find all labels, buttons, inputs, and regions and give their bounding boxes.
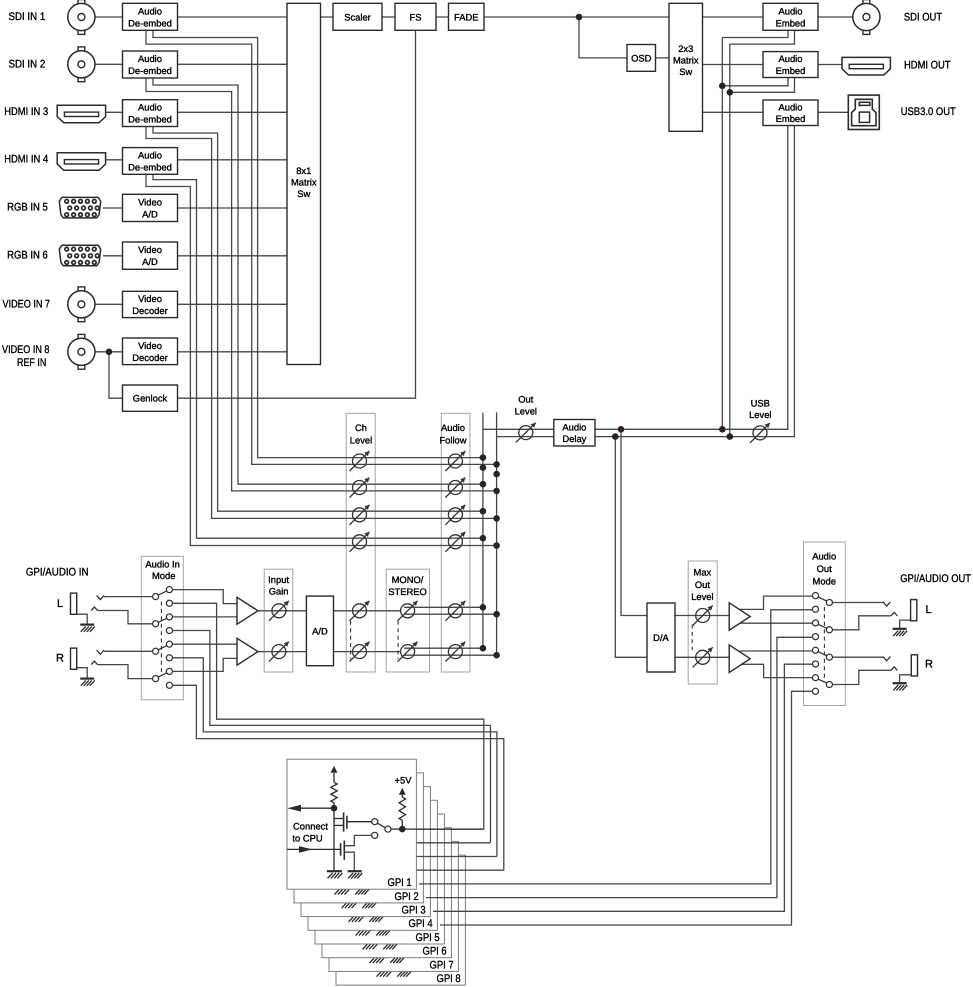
switch levers Audio Out Mode: [818, 597, 826, 601]
wire de-embed 4 audio ch A to mixer row 4: [153, 174, 483, 538]
block Audio De-embed 4: [123, 148, 178, 175]
GPI 1 output to CPU arrow: [301, 807, 334, 809]
connector L audio out jack: [911, 600, 917, 621]
svg-text:Connect: Connect: [293, 821, 328, 832]
svg-text:R: R: [925, 659, 933, 671]
amplifier output R (amp4): [729, 645, 750, 673]
wire out pole 1 to L jack tip: [832, 602, 883, 604]
connector SDI OUT BNC: [863, 0, 870, 4]
wire Audio De-embed 1 to 8x1 Matrix: [178, 16, 288, 18]
wire MONO/STEREO out R pair upper: [404, 647, 483, 649]
wire throw 4 to GPI 2: [173, 631, 491, 843]
switch poles Audio In Mode: [153, 594, 159, 600]
GPI 1 switch throw upper: [372, 819, 378, 825]
block D/A: [647, 603, 675, 672]
svg-text:Audio: Audio: [779, 53, 803, 64]
wire throw 5 to amp2 input A: [173, 643, 238, 645]
GPI 3 ground hatches: [341, 900, 356, 902]
amplifier input L (amp1): [237, 597, 258, 624]
GPI 2 box: [294, 773, 423, 903]
svg-text:D/A: D/A: [653, 632, 669, 643]
svg-text:A/D: A/D: [142, 208, 158, 219]
wire VIDEO IN 8 to Video Decoder 8: [95, 351, 123, 353]
ground R in jack: [80, 677, 94, 679]
wire throw 2 to GPI 1: [173, 603, 484, 829]
junction embed bus A at delay out: [719, 426, 726, 433]
junction L bus row 6: [480, 645, 487, 652]
junction R bus row 4: [493, 542, 500, 549]
svg-text:L: L: [925, 604, 931, 616]
switch gang dash Audio Out Mode: [823, 607, 825, 681]
wire de-embed 3 audio ch A to mixer row 3: [153, 127, 483, 512]
pot level analog L (post A/D): [353, 604, 367, 618]
wire Audio De-embed 2 to 8x1 Matrix: [178, 63, 288, 65]
svg-text:Gain: Gain: [269, 586, 289, 597]
svg-text:Genlock: Genlock: [133, 393, 168, 404]
svg-text:SDI IN 1: SDI IN 1: [9, 11, 46, 23]
wire L jack tip switch to pole 1: [97, 595, 104, 599]
connector HDMI OUT: [842, 57, 890, 75]
switch levers Audio In Mode: [158, 591, 167, 595]
GPI 1 node junction: [331, 805, 338, 812]
gang dash post-A/D pots: [350, 621, 352, 659]
junction L bus row 4: [480, 535, 487, 542]
wire 2x3 Matrix to Audio Embed 3: [703, 111, 764, 113]
wire de-embed 3 audio ch B to mixer row 3: [146, 127, 497, 519]
wire HDMI IN 4 to Audio De-embed 4: [106, 159, 123, 161]
wire 2x3 Matrix to Audio Embed 1: [703, 16, 764, 18]
wire junction drop to OSD: [579, 17, 627, 58]
block Audio De-embed 2: [123, 51, 178, 78]
wire Audio Embed 1 to SDI OUT: [818, 16, 853, 18]
junction VIDEO IN 8 REF IN tap: [106, 349, 113, 356]
wire out pole 2 to L jack sleeve: [832, 616, 891, 630]
connector R audio in jack: [71, 648, 77, 669]
svg-text:HDMI OUT: HDMI OUT: [904, 59, 951, 71]
GPI 1 pull-up supply arrow: [331, 766, 338, 773]
transistor Q2 (drive FET): [287, 848, 341, 850]
wire GPI 3 output: [405, 856, 497, 858]
wire L jack ring switch to pole 2: [91, 607, 97, 611]
wire D/A out L to amp3: [675, 615, 729, 617]
wire embed bus B vertical: [729, 44, 731, 437]
wire GPI 1 pole node to stack edge: [402, 828, 484, 830]
svg-text:De-embed: De-embed: [128, 161, 172, 172]
block A/D: [306, 596, 333, 666]
svg-text:USB: USB: [751, 397, 770, 408]
junction embed bus B at Audio Embed 2: [727, 89, 734, 96]
svg-text:A/D: A/D: [312, 625, 328, 636]
svg-text:2x3: 2x3: [678, 43, 693, 54]
wire out R to Audio Embed 3: [730, 126, 795, 437]
GPI 1 node to ground rail: [333, 808, 335, 870]
wire throw 3 to amp1 input B: [173, 616, 238, 618]
svg-text:Out: Out: [817, 563, 833, 574]
svg-text:GPI 3: GPI 3: [402, 905, 426, 917]
svg-text:Follow: Follow: [439, 434, 466, 445]
amplifier output L (amp3): [729, 603, 750, 630]
svg-text:Video: Video: [138, 340, 162, 351]
wire D/A out R to amp4: [675, 656, 729, 658]
switch contacts Audio Out Mode: [812, 593, 818, 599]
svg-text:Audio In: Audio In: [145, 559, 179, 570]
svg-text:HDMI IN 3: HDMI IN 3: [4, 106, 48, 118]
svg-text:Level: Level: [691, 591, 713, 602]
connector HDMI IN 3: [57, 105, 105, 123]
wire amp3 out B to contact 3: [740, 622, 812, 624]
GPI 1 switch pole: [385, 826, 391, 832]
pot Max Out Level L: [696, 609, 710, 623]
GPI 4 ground hatches: [348, 914, 363, 916]
junction L bus row 3: [480, 508, 487, 515]
container Audio Out Mode: [804, 542, 846, 706]
block Audio Embed 3: [763, 100, 818, 126]
connector USB3.0 OUT: [848, 95, 879, 129]
wire R jack tip switch to pole 3: [97, 650, 104, 654]
wire D/A feed upper: [621, 429, 647, 615]
gang dash MONO/STEREO pots: [397, 621, 399, 659]
wire OSD to 2x3 Matrix Sw: [656, 57, 670, 59]
wire Audio Delay out R: [595, 436, 730, 438]
connector HDMI IN 4: [57, 153, 105, 171]
junction R bus row 1b: [493, 471, 500, 478]
wire Audio De-embed 3 to 8x1 Matrix: [178, 111, 288, 113]
junction embed bus B at delay out: [727, 433, 734, 440]
pot level analog R (post A/D): [353, 645, 367, 659]
block Audio De-embed 1: [123, 3, 178, 30]
pot Ch Level row 3: [353, 508, 367, 522]
ground GPI 1 right: [348, 870, 362, 872]
GPI 1 switch lever: [378, 823, 386, 827]
+5V supply arrow: [399, 788, 406, 795]
container Audio Follow: [441, 413, 470, 672]
wire amp2 out to A/D: [258, 651, 306, 653]
svg-text:Audio: Audio: [779, 101, 803, 112]
wire GPI 8 to Audio Out Mode contact 8: [440, 691, 812, 925]
svg-text:GPI 4: GPI 4: [409, 918, 433, 930]
svg-text:RGB IN 6: RGB IN 6: [7, 250, 48, 262]
connector R audio out jack: [911, 655, 917, 676]
connector SDI IN 1 BNC: [78, 0, 85, 4]
wire Video A/D 5 to 8x1 Matrix: [178, 207, 288, 209]
svg-text:L: L: [57, 598, 63, 610]
wire de-embed 4 audio ch B to mixer row 4: [146, 174, 497, 545]
GPI 4 box: [308, 800, 437, 930]
svg-text:GPI/AUDIO OUT: GPI/AUDIO OUT: [900, 573, 971, 585]
connector RGB IN 6 VGA: [59, 245, 100, 266]
wire de-embed 1 audio ch A to mixer row 1: [153, 30, 483, 457]
svg-text:Audio: Audio: [138, 53, 162, 64]
svg-text:Video: Video: [138, 196, 162, 207]
ground GPI 1 left: [327, 870, 342, 872]
svg-text:Scaler: Scaler: [344, 11, 371, 22]
svg-text:SDI IN 2: SDI IN 2: [9, 58, 46, 70]
wire GPI 2 output: [398, 842, 491, 844]
pot Max Out Level R: [696, 650, 710, 664]
svg-text:Mode: Mode: [152, 570, 175, 581]
svg-text:Video: Video: [138, 293, 162, 304]
container Max Out Level: [688, 561, 717, 684]
wire Audio Embed 2 to HDMI OUT: [818, 64, 842, 66]
wire L out jack to ground: [900, 620, 911, 628]
wire throw 7 to amp2 input B: [173, 658, 238, 671]
wire MONO/STEREO out L pair lower: [404, 613, 497, 615]
junction L bus row 1b: [480, 464, 487, 471]
svg-text:REF IN: REF IN: [17, 357, 46, 369]
wire A/D out R to MONO/STEREO: [334, 651, 401, 653]
ground R out jack: [893, 682, 907, 684]
wire SDI IN 1 to Audio De-embed 1: [95, 16, 123, 18]
wire GPI 7 to Audio Out Mode contact 6: [433, 664, 812, 911]
block Audio De-embed 3: [123, 100, 178, 127]
svg-text:GPI 7: GPI 7: [430, 959, 454, 971]
pot Audio Follow row 4: [448, 535, 462, 549]
svg-text:HDMI IN 4: HDMI IN 4: [4, 154, 48, 166]
svg-text:Embed: Embed: [776, 17, 806, 28]
switch poles Audio Out Mode: [826, 599, 832, 605]
wire GPI 1 output: [391, 828, 484, 830]
wire R in jack sleeve to ground: [77, 668, 88, 679]
block FS: [395, 3, 436, 30]
svg-text:GPI 2: GPI 2: [395, 891, 419, 903]
pot USB Level: [753, 426, 767, 440]
svg-text:MONO/: MONO/: [392, 574, 424, 585]
connector VIDEO IN 8 / REF IN BNC: [78, 334, 85, 338]
svg-text:VIDEO IN 8: VIDEO IN 8: [2, 344, 50, 356]
wire out pole 3 to R jack tip: [832, 656, 883, 658]
block Video Decoder 7: [123, 291, 178, 317]
svg-text:Audio: Audio: [562, 421, 586, 432]
svg-text:R: R: [56, 653, 64, 665]
block Audio Embed 1: [763, 3, 818, 30]
junction L bus row 1: [480, 454, 487, 461]
+5V node junction: [401, 821, 403, 830]
wire Audio Delay out L: [595, 428, 722, 430]
GPI 6 box: [322, 828, 451, 958]
svg-text:Decoder: Decoder: [132, 305, 167, 316]
wire Audio Embed 1 feed B: [730, 30, 795, 44]
wire Scaler to FS: [382, 16, 395, 18]
ground L in jack: [80, 623, 94, 625]
bus audio L (left mix bus): [482, 413, 484, 648]
svg-text:+5V: +5V: [395, 774, 413, 785]
GPI 6 ground hatches: [362, 941, 377, 943]
connector SDI IN 2 BNC: [78, 47, 85, 51]
svg-text:OSD: OSD: [631, 52, 652, 63]
svg-text:SDI OUT: SDI OUT: [904, 11, 942, 23]
junction R bus row 3: [493, 515, 500, 522]
wire amp4 out A to contact 5: [740, 650, 813, 652]
junction FADE-OSD split: [576, 14, 583, 21]
pot MONO/STEREO R: [401, 645, 415, 659]
svg-text:De-embed: De-embed: [128, 114, 172, 125]
container Ch Level: [346, 413, 375, 672]
junction delay out upper to D/A: [618, 426, 625, 433]
block 8x1 Matrix Sw: [287, 3, 321, 364]
wire Audio Embed 2 feed B: [730, 78, 795, 93]
block Audio Embed 2: [763, 52, 818, 78]
block 2x3 Matrix Sw: [669, 3, 703, 131]
wire GPI 4 output: [412, 869, 504, 871]
wire de-embed 2 audio ch B to mixer row 2: [146, 78, 497, 491]
block Genlock: [123, 385, 178, 411]
svg-text:Embed: Embed: [776, 65, 806, 76]
wire out pole 4 to R jack sleeve: [832, 670, 891, 684]
svg-text:Matrix: Matrix: [291, 177, 317, 188]
junction R bus row 1: [493, 461, 500, 468]
pot Audio Follow row 3: [448, 508, 462, 522]
wire 8x1 Matrix to Scaler: [321, 16, 334, 18]
svg-text:Audio: Audio: [779, 5, 803, 16]
svg-text:Audio: Audio: [812, 551, 836, 562]
GPI 7 ground hatches: [369, 955, 384, 957]
wire MONO/STEREO out L pair upper: [404, 606, 483, 608]
wire 2x3 Matrix to Audio Embed 2: [703, 64, 764, 66]
svg-text:GPI/AUDIO IN: GPI/AUDIO IN: [26, 567, 89, 579]
block OSD: [627, 45, 656, 72]
pot Audio Follow row 6: [448, 645, 462, 659]
svg-text:GPI 6: GPI 6: [423, 946, 447, 958]
GPI 1 pull-up resistor: [331, 782, 337, 803]
svg-text:8x1: 8x1: [296, 165, 311, 176]
+5V pull-up resistor: [399, 797, 405, 821]
svg-text:Level: Level: [515, 406, 537, 417]
junction L bus row 2: [480, 481, 487, 488]
svg-text:Decoder: Decoder: [132, 352, 167, 363]
wire de-embed 1 audio ch B to mixer row 1: [146, 30, 497, 464]
wire GPI 1 pole to +5V node: [391, 828, 402, 830]
wire FS to FADE: [436, 16, 449, 18]
svg-text:GPI 5: GPI 5: [416, 932, 440, 944]
svg-text:STEREO: STEREO: [388, 586, 427, 597]
wire embed bus A vertical: [721, 38, 723, 430]
svg-text:GPI 8: GPI 8: [437, 973, 461, 985]
ground L out jack: [893, 628, 907, 630]
wire de-embed 2 audio ch A to mixer row 2: [153, 78, 483, 484]
wire amp4 out B to contact 7: [740, 664, 812, 677]
wire Video Decoder 8 to 8x1 Matrix: [178, 351, 288, 353]
wire Audio De-embed 4 to 8x1 Matrix: [178, 159, 288, 161]
pot Out Level: [519, 426, 533, 440]
GPI 5 ground hatches: [355, 927, 370, 929]
wire FADE to 2x3 Matrix Sw: [484, 16, 669, 18]
svg-text:Audio: Audio: [138, 5, 162, 16]
wire R out jack to ground: [900, 675, 912, 683]
wire Video A/D 6 to 8x1 Matrix: [178, 255, 288, 257]
wire R bus to Audio Delay: [497, 436, 554, 438]
wire amp1 out to A/D: [258, 610, 306, 612]
svg-text:Max: Max: [694, 566, 712, 577]
svg-text:Out: Out: [695, 579, 711, 590]
pot Ch Level row 1: [353, 454, 367, 468]
wire R jack ring switch to pole 4: [91, 661, 97, 665]
svg-text:De-embed: De-embed: [128, 17, 172, 28]
container Input Gain: [264, 569, 293, 672]
container MONO/STEREO: [386, 569, 429, 672]
block Video A/D 5: [123, 194, 178, 221]
svg-text:FS: FS: [410, 11, 422, 22]
pot Audio Follow row 1: [448, 454, 462, 468]
wire VIDEO IN 7 to Video Decoder 7: [95, 303, 123, 305]
wire throw 6 to GPI 3: [173, 658, 497, 857]
wire Genlock to FS (frame sync reference): [178, 30, 416, 398]
block Video A/D 6: [123, 242, 178, 269]
gang dash Max Out Level pots: [691, 625, 693, 651]
wire A/D out L to MONO/STEREO: [334, 610, 401, 612]
transistor Q1 (sense FET): [334, 818, 344, 820]
svg-text:to CPU: to CPU: [292, 833, 322, 844]
connector VIDEO IN 7 BNC: [78, 287, 85, 291]
svg-text:GPI 1: GPI 1: [388, 877, 412, 889]
svg-text:Matrix: Matrix: [673, 55, 699, 66]
wire throw 8 to GPI 4: [173, 685, 504, 870]
wire MONO/STEREO out R pair lower: [404, 654, 497, 656]
GPI 8 box: [336, 855, 465, 985]
wire RGB IN 5 to Video A/D 5: [103, 207, 123, 209]
amplifier input R (amp2): [237, 638, 258, 665]
wire Audio Embed 3 to USB3.0 OUT: [818, 111, 848, 113]
wire SDI IN 2 to Audio De-embed 2: [95, 63, 123, 65]
block Video Decoder 8: [123, 338, 178, 365]
GPI 2 ground hatches: [334, 886, 349, 888]
svg-text:Sw: Sw: [297, 188, 310, 199]
svg-text:Out: Out: [518, 394, 534, 405]
svg-text:USB3.0 OUT: USB3.0 OUT: [901, 106, 956, 118]
pot MONO/STEREO L: [401, 604, 415, 618]
svg-text:Video: Video: [138, 244, 162, 255]
svg-text:Audio: Audio: [138, 150, 162, 161]
connector L audio in jack: [71, 593, 77, 614]
wire RGB IN 6 to Video A/D 6: [103, 255, 123, 257]
bus audio R (right mix bus): [496, 412, 498, 655]
junction R bus row 2: [493, 488, 500, 495]
block FADE: [449, 3, 485, 30]
junction R bus row 5: [493, 611, 500, 618]
wire GPI 6 to Audio Out Mode contact 4: [426, 637, 812, 897]
wire L in jack sleeve to ground: [77, 614, 88, 624]
GPI 1 switch throw lower: [372, 832, 378, 838]
GPI 8 ground hatches: [376, 968, 391, 970]
svg-text:Delay: Delay: [562, 433, 586, 444]
block Audio Delay: [554, 420, 595, 447]
svg-text:Sw: Sw: [679, 66, 692, 77]
svg-text:Level: Level: [350, 434, 372, 445]
GPI 1 box: [287, 759, 416, 889]
switch gang dash Audio In Mode: [160, 602, 162, 676]
block Scaler: [333, 3, 382, 30]
GPI 5 box: [315, 814, 444, 944]
junction L bus row 5: [480, 604, 487, 611]
wire Audio Embed 1 feed A: [722, 30, 788, 37]
GPI 3 box: [301, 787, 430, 917]
wire D/A feed lower: [615, 437, 647, 658]
svg-text:Audio: Audio: [138, 102, 162, 113]
svg-text:VIDEO IN 7: VIDEO IN 7: [3, 298, 51, 310]
wire Video Decoder 7 to 8x1 Matrix: [178, 303, 288, 305]
connector RGB IN 5 VGA: [59, 197, 100, 218]
svg-text:RGB IN 5: RGB IN 5: [7, 202, 48, 214]
pot Ch Level row 4: [353, 535, 367, 549]
svg-text:Audio: Audio: [441, 422, 465, 433]
pot Ch Level row 2: [353, 481, 367, 495]
pot Audio Follow row 2: [448, 481, 462, 495]
wire HDMI IN 3 to Audio De-embed 3: [106, 111, 123, 113]
wire L bus to Out Level: [483, 428, 554, 430]
node REF IN tap: [109, 352, 123, 398]
svg-text:FADE: FADE: [454, 11, 479, 22]
pot Input Gain L: [272, 604, 286, 618]
svg-text:Mode: Mode: [812, 575, 835, 586]
